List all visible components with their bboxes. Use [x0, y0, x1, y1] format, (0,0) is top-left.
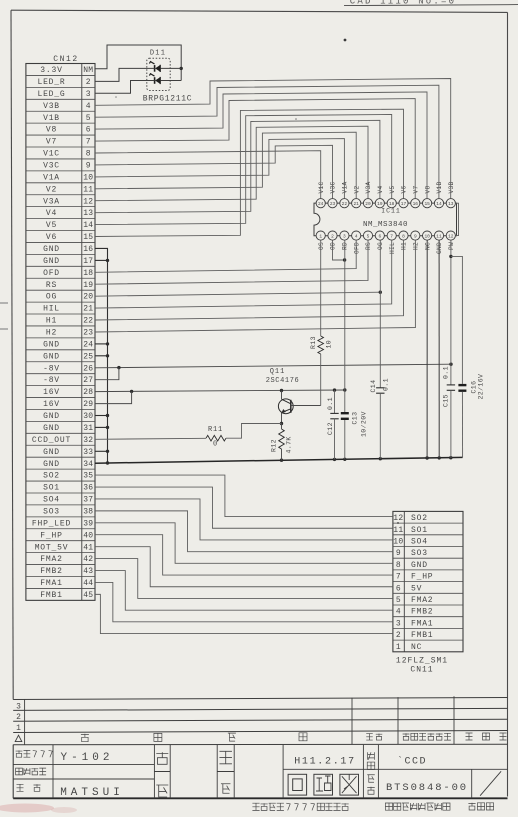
svg-text:33: 33 — [83, 448, 93, 457]
svg-text:V4: V4 — [46, 209, 57, 218]
junction GND pin31 — [106, 426, 109, 429]
svg-text:5: 5 — [396, 596, 401, 605]
wire V1B: CN12 pin5 to IC11 pin14 — [95, 85, 439, 198]
svg-text:V1B: V1B — [436, 181, 443, 193]
svg-text:V7: V7 — [46, 138, 57, 147]
wire C14 to GND rail — [379, 393, 381, 459]
IC11 top pin circles and numbers 24..13 — [316, 199, 325, 208]
wire H1: CN12 pin22 to IC11 pin8 — [95, 240, 404, 320]
svg-text:3.3V: 3.3V — [40, 66, 62, 75]
svg-text:16V: 16V — [43, 388, 60, 397]
svg-text:8: 8 — [86, 150, 91, 159]
svg-text:OD: OD — [330, 242, 337, 250]
junction GND rail / C14 — [379, 457, 382, 460]
svg-text:2: 2 — [331, 233, 334, 239]
svg-text:SO3: SO3 — [43, 507, 60, 516]
svg-text:SO2: SO2 — [411, 514, 428, 523]
svg-text:GND: GND — [43, 448, 60, 457]
wire V3B: CN12 pin4 to IC11 pin13 — [95, 79, 451, 199]
svg-text:Q11: Q11 — [270, 368, 286, 376]
junction GND pin33 — [106, 450, 109, 453]
svg-text:V1C: V1C — [43, 150, 60, 159]
svg-text:9: 9 — [86, 162, 91, 171]
svg-text:15: 15 — [424, 201, 430, 207]
svg-text:30: 30 — [83, 412, 93, 421]
stamp 回路図 (circuit diagram) — [288, 774, 307, 795]
svg-text:10: 10 — [393, 537, 403, 546]
wire OFD: CN12 pin18 to IC11 pin4 — [95, 240, 356, 273]
svg-text:12: 12 — [448, 233, 454, 239]
junction GND rail / R12 — [280, 459, 283, 462]
svg-text:28: 28 — [83, 388, 93, 397]
svg-text:OS: OS — [318, 242, 325, 250]
junction 3.3V at D11 LED1 — [180, 67, 183, 70]
wire OG: IC11 pin6 down to C14 — [379, 240, 381, 388]
svg-text:GND: GND — [43, 340, 60, 349]
svg-text:13: 13 — [83, 209, 93, 218]
wire 16V: CN12 pin29 up to rail — [95, 391, 132, 403]
title block revision table — [13, 698, 507, 700]
svg-text:22: 22 — [342, 201, 348, 207]
svg-text:R12: R12 — [271, 439, 278, 452]
label 図(番) — [367, 775, 375, 783]
svg-text:0.1: 0.1 — [383, 378, 390, 391]
wire RS: CN12 pin19 to IC11 pin5 — [95, 240, 368, 285]
junction GND rail / GND bus — [106, 461, 109, 464]
label 称 — [367, 762, 375, 770]
svg-text:15: 15 — [83, 233, 93, 242]
wire LED_G: CN12 pin3 to D11 LED2 — [95, 81, 155, 94]
svg-text:NC: NC — [424, 242, 431, 250]
svg-text:SO4: SO4 — [43, 496, 60, 505]
svg-text:12: 12 — [393, 514, 403, 523]
svg-text:`CCD: `CCD — [397, 755, 427, 768]
svg-text:V4: V4 — [377, 185, 384, 193]
svg-text:38: 38 — [83, 507, 93, 516]
junction 16V at C13/RD — [343, 388, 346, 391]
svg-text:NM: NM — [83, 66, 93, 75]
svg-text:5: 5 — [86, 114, 91, 123]
wire OS: IC11 pin1 down to R13 — [320, 240, 322, 336]
revision triangle mark — [15, 735, 22, 741]
wire HIL: CN12 pin21 to IC11 pin7 — [95, 240, 392, 309]
op-amp/IC U: IC11 NM_MS3840 body — [314, 203, 457, 236]
wire V2: CN12 pin11 to IC11 pin21 — [95, 132, 356, 198]
junction 16V at C12 — [333, 388, 336, 391]
svg-text:4: 4 — [396, 608, 401, 617]
svg-text:GND: GND — [43, 412, 60, 421]
wire SO1: CN12 pin36 to CN11 pin11 — [95, 487, 393, 528]
wire -8V rail: CN12 pin26 to C15/PW — [95, 364, 451, 368]
wire D11 LED1 to 3.3V vertical — [161, 67, 182, 69]
svg-text:35: 35 — [83, 472, 93, 481]
svg-text:MOT_5V: MOT_5V — [35, 543, 69, 552]
wire GND: CN12 pin24 to bus — [95, 343, 108, 345]
wire V1C: CN12 pin8 to IC11 pin24 — [95, 151, 321, 199]
wire FMA1: CN12 pin44 to CN11 pin3 — [95, 582, 393, 621]
svg-text:V3A: V3A — [43, 197, 60, 206]
header label 容 — [299, 733, 307, 741]
wire CCD_OUT: CN12 pin32 to R11 — [95, 438, 206, 439]
svg-text:NM_MS3840: NM_MS3840 — [363, 221, 408, 229]
division 電子映像事業本部 — [385, 803, 392, 810]
stamp label 承 — [219, 751, 232, 764]
wire GND: CN12 pin25 to bus — [95, 355, 108, 357]
wire IC11 pin10 NC down to GND rail — [426, 240, 428, 458]
svg-text:OG: OG — [46, 293, 57, 302]
svg-text:H2: H2 — [46, 329, 57, 338]
capacitor C12 0.1 — [330, 412, 338, 414]
svg-text:H1: H1 — [401, 242, 408, 250]
wire D11 LED2 to 3.3V vertical — [161, 80, 182, 82]
wire PW: IC11 pin12 down to -8V rail — [450, 240, 452, 364]
junction OG — [379, 291, 382, 294]
svg-text:25: 25 — [83, 352, 93, 361]
wire PW branch to C16 — [451, 256, 463, 384]
wire Q11 emitter down — [281, 413, 283, 424]
svg-text:R13: R13 — [310, 336, 317, 349]
svg-text:39: 39 — [83, 519, 93, 528]
svg-text:C14: C14 — [370, 380, 377, 393]
wire -8V: CN12 pin27 up to rail — [95, 368, 119, 380]
title row line — [13, 764, 154, 766]
svg-text:CCD_OUT: CCD_OUT — [32, 436, 71, 445]
header label 変 — [81, 734, 89, 742]
svg-text:V1A: V1A — [43, 173, 60, 182]
svg-text:3: 3 — [343, 233, 346, 239]
svg-text:42: 42 — [83, 555, 93, 564]
svg-text:SO1: SO1 — [411, 526, 428, 535]
svg-text:12: 12 — [83, 197, 93, 206]
svg-text:11: 11 — [393, 526, 403, 535]
svg-text:V5: V5 — [389, 185, 396, 193]
wire IC11 pin11 GND down to GND rail — [438, 240, 440, 458]
diagonal slash in last cell — [480, 771, 501, 795]
transistor Q11 2SC4176 — [278, 399, 293, 414]
svg-text:23: 23 — [330, 201, 336, 207]
connector CN11 — [393, 511, 463, 651]
junction emitter/R11/R12 node — [280, 422, 283, 425]
svg-text:16: 16 — [413, 201, 419, 207]
svg-text:4: 4 — [86, 102, 91, 111]
svg-text:FMB1: FMB1 — [411, 631, 433, 640]
wire V1A: CN12 pin10 to IC11 pin22 — [95, 139, 344, 199]
svg-text:SO1: SO1 — [43, 484, 60, 493]
wire R13 to Q11 base node — [320, 354, 322, 406]
junction GND pin17 — [106, 259, 109, 262]
svg-text:GND: GND — [43, 460, 60, 469]
svg-text:3: 3 — [86, 90, 91, 99]
svg-text:LED_R: LED_R — [37, 78, 65, 87]
junction GND rail / C12 — [333, 458, 336, 461]
wire V8: CN12 pin6 to IC11 pin15 — [95, 92, 427, 199]
junction PW branch — [449, 255, 452, 258]
svg-text:21: 21 — [83, 305, 93, 314]
svg-text:V1B: V1B — [43, 114, 60, 123]
svg-text:2: 2 — [86, 78, 91, 87]
svg-text:V6: V6 — [46, 233, 57, 242]
svg-text:GND: GND — [43, 257, 60, 266]
svg-text:6: 6 — [378, 233, 381, 239]
svg-text:17: 17 — [401, 201, 407, 207]
svg-text:V5: V5 — [46, 221, 57, 230]
company 富士写真フィルム株式会社 — [252, 803, 259, 810]
svg-text:5V: 5V — [411, 584, 422, 593]
svg-text:V7: V7 — [413, 185, 420, 193]
svg-text:7: 7 — [86, 138, 91, 147]
svg-text:PW: PW — [448, 242, 455, 250]
svg-text:CN11: CN11 — [410, 666, 433, 675]
svg-text:45: 45 — [83, 591, 93, 600]
svg-text:18: 18 — [83, 269, 93, 278]
wire V7: CN12 pin7 to IC11 pin16 — [95, 99, 415, 199]
wire V3A: CN12 pin12 to IC11 pin20 — [95, 126, 368, 201]
wire GND bus: CN12 pin16 down to GND rail — [95, 248, 108, 463]
scan artifact pink smudge — [0, 804, 54, 813]
capacitor C13 10/20V electrolytic — [341, 412, 349, 414]
junction GND rail / C15 — [449, 456, 452, 459]
svg-text:43: 43 — [83, 567, 93, 576]
wire C12 to GND rail — [334, 419, 336, 460]
svg-text:HIL: HIL — [43, 305, 60, 314]
wire SO4: CN12 pin37 to CN11 pin10 — [95, 499, 393, 540]
svg-text:H11.2.17: H11.2.17 — [294, 757, 356, 768]
svg-text:37: 37 — [83, 496, 93, 505]
svg-text:31: 31 — [83, 424, 93, 433]
svg-text:14: 14 — [436, 201, 442, 207]
svg-text:41: 41 — [83, 543, 93, 552]
wire FMB2: CN12 pin43 to CN11 pin4 — [95, 571, 393, 611]
svg-text:MATSUI: MATSUI — [60, 787, 124, 799]
svg-text:0.1: 0.1 — [327, 397, 334, 410]
wire MOT_5V: CN12 pin41 to CN11 pin6 — [95, 547, 393, 587]
svg-text:1: 1 — [319, 233, 322, 239]
svg-text:GND: GND — [411, 561, 428, 570]
svg-text:V3B: V3B — [448, 181, 455, 193]
svg-text:8: 8 — [402, 233, 405, 239]
svg-text:V6: V6 — [401, 185, 408, 193]
svg-text:1: 1 — [16, 724, 21, 733]
svg-text:FMA1: FMA1 — [40, 579, 62, 588]
svg-text:F_HP: F_HP — [40, 531, 62, 540]
wire 16V rail to C12 — [334, 390, 336, 413]
wire C13 to GND rail — [344, 420, 346, 459]
wire V5: CN12 pin14 to IC11 pin18 — [95, 115, 392, 225]
svg-text:FMA2: FMA2 — [411, 596, 433, 605]
svg-text:24: 24 — [83, 340, 93, 349]
svg-text:D11: D11 — [150, 50, 166, 58]
scan specks — [344, 39, 347, 42]
svg-text:C13: C13 — [352, 412, 359, 425]
svg-text:V8: V8 — [424, 185, 431, 193]
svg-text:40: 40 — [83, 531, 93, 540]
svg-text:IC11: IC11 — [381, 208, 401, 215]
svg-text:V1C: V1C — [318, 181, 325, 193]
svg-text:20: 20 — [365, 201, 371, 207]
svg-text:V1A: V1A — [342, 181, 349, 193]
capacitor C15 0.1 — [447, 384, 455, 386]
resistor R13 10 — [318, 336, 324, 354]
wire V6: CN12 pin15 to IC11 pin17 — [95, 109, 404, 236]
svg-text:V2: V2 — [46, 185, 57, 194]
junction OD/RD — [343, 258, 346, 261]
svg-text:7: 7 — [390, 233, 393, 239]
svg-text:HIL: HIL — [389, 242, 396, 254]
svg-text:27: 27 — [83, 376, 93, 385]
svg-text:12FLZ_SM1: 12FLZ_SM1 — [396, 657, 448, 666]
svg-text:10/20V: 10/20V — [361, 411, 368, 437]
svg-text:CN12: CN12 — [53, 55, 79, 64]
wire GND: CN12 pin31 to bus — [95, 426, 108, 428]
wire C16 to GND rail end — [461, 392, 463, 458]
capacitor C16 22/16V electrolytic — [458, 384, 466, 386]
svg-text:16: 16 — [83, 245, 93, 254]
svg-text:C15: C15 — [443, 394, 450, 407]
svg-text:14: 14 — [83, 221, 93, 230]
svg-text:2SC4176: 2SC4176 — [266, 377, 300, 385]
wire OD: IC11 pin2 to RD — [333, 240, 345, 260]
svg-text:GND: GND — [436, 242, 443, 254]
svg-text:H1: H1 — [46, 317, 57, 326]
label 番 — [367, 787, 375, 795]
svg-text:V2: V2 — [353, 185, 360, 193]
svg-text:FHP_LED: FHP_LED — [32, 519, 71, 528]
left margin fold marks — [0, 302, 8, 304]
svg-text:32: 32 — [83, 436, 93, 445]
header label 担当 — [366, 734, 373, 741]
header label 更 — [154, 733, 162, 741]
svg-text:17: 17 — [83, 257, 93, 266]
wire C15 to GND rail — [450, 390, 452, 457]
svg-text:-8V: -8V — [43, 364, 60, 373]
svg-text:LED_G: LED_G — [37, 90, 65, 99]
header label 内 — [228, 733, 236, 741]
svg-text:8: 8 — [396, 561, 401, 570]
wire H2: CN12 pin23 to IC11 pin9 — [95, 240, 415, 332]
svg-text:9: 9 — [414, 233, 417, 239]
svg-text:29: 29 — [83, 400, 93, 409]
svg-text:Y-102: Y-102 — [60, 752, 113, 764]
svg-text:SO4: SO4 — [411, 537, 428, 546]
svg-text:RS: RS — [365, 242, 372, 250]
resistor R12 4.7K — [279, 429, 285, 449]
svg-text:SO2: SO2 — [43, 472, 60, 481]
svg-text:BRPG1211C: BRPG1211C — [143, 95, 193, 104]
svg-text:5: 5 — [367, 233, 370, 239]
svg-text:6: 6 — [86, 126, 91, 135]
wire V4: CN12 pin13 to IC11 pin19 — [95, 120, 380, 212]
svg-text:23: 23 — [83, 329, 93, 338]
svg-text:FMA1: FMA1 — [411, 619, 433, 628]
svg-text:R11: R11 — [208, 426, 223, 434]
svg-text:24: 24 — [318, 201, 324, 207]
svg-text:FMB1: FMB1 — [40, 591, 62, 600]
wire FMA2: CN12 pin42 to CN11 pin5 — [95, 559, 393, 599]
svg-text:11: 11 — [436, 233, 442, 239]
svg-text:13: 13 — [448, 201, 454, 207]
IC11 bottom pin circles and numbers 1..12 — [316, 231, 325, 240]
svg-text:4.7K: 4.7K — [286, 436, 293, 453]
svg-text:11: 11 — [83, 185, 93, 194]
junction -8V at C15 — [449, 363, 452, 366]
LED chip 1 (red) of D11 — [154, 65, 156, 72]
svg-text:FMB2: FMB2 — [411, 608, 433, 617]
junction GND pin30 — [106, 414, 109, 417]
junction -8V pin27 — [117, 366, 120, 369]
wire SO2: CN12 pin35 to CN11 pin12 — [95, 475, 393, 516]
stamp label 検 — [156, 752, 168, 764]
svg-text:36: 36 — [83, 484, 93, 493]
wire FHP_LED: CN12 pin39 to CN11 pin8 — [95, 523, 393, 564]
svg-text:FMA2: FMA2 — [40, 555, 62, 564]
wire GND: CN12 pin33 to bus — [95, 450, 108, 452]
wire FMB1: CN12 pin45 to CN11 pin2 — [95, 594, 393, 633]
svg-text:16V: 16V — [43, 400, 60, 409]
svg-text:V3B: V3B — [43, 102, 60, 111]
svg-text:3: 3 — [396, 619, 401, 628]
svg-text:22/16V: 22/16V — [478, 374, 485, 400]
svg-text:6: 6 — [396, 584, 401, 593]
svg-text:FMB2: FMB2 — [40, 567, 62, 576]
wire GND rail: CN12 pin34 across to C16 — [95, 457, 463, 463]
D11 dashed package outline — [147, 58, 170, 90]
junction 16V pin29 — [130, 390, 133, 393]
svg-text:GND: GND — [43, 352, 60, 361]
svg-text:0: 0 — [213, 441, 218, 449]
header label 年月日 — [466, 733, 473, 740]
wire -8V to C15 — [450, 364, 452, 385]
wire GND: CN12 pin17 to bus — [95, 259, 108, 261]
wire 16V rail: CN12 pin28 to C13 — [95, 390, 345, 392]
page frame border — [11, 10, 508, 12]
wire IC11 pin13 V3B to pin12 PW link — [455, 203, 458, 235]
svg-text:OFD: OFD — [43, 269, 60, 278]
svg-text:44: 44 — [83, 579, 93, 588]
stamp label 認 — [221, 784, 231, 794]
svg-text:9: 9 — [396, 549, 401, 558]
wire GND: CN12 pin30 to bus — [95, 415, 108, 417]
resistor R11 0 — [206, 435, 226, 441]
svg-text:21: 21 — [353, 201, 359, 207]
svg-text:RS: RS — [46, 281, 57, 290]
wire R11 to emitter node — [226, 424, 282, 439]
stamp label 図(check) — [156, 785, 168, 797]
junction GND pin25 — [106, 354, 109, 357]
svg-text:10: 10 — [83, 173, 93, 182]
junction 16V at Q11 collector — [280, 389, 283, 392]
wire LED_R: CN12 pin2 to D11 LED1 — [95, 68, 155, 81]
svg-text:F_HP: F_HP — [411, 573, 433, 582]
wire OG: CN12 pin20 to OG vertical — [95, 292, 380, 296]
wire 16V to C13 — [344, 390, 346, 412]
label 部品番号 — [16, 768, 23, 775]
label 担当 — [17, 784, 24, 791]
wire 3.3V net: CN12 pin1 to D11 common cathode side — [95, 45, 181, 81]
svg-text:7: 7 — [396, 573, 401, 582]
svg-text:0.1: 0.1 — [443, 366, 450, 379]
svg-text:V3C: V3C — [330, 181, 337, 193]
wire R12 to GND rail — [281, 449, 283, 460]
svg-text:1: 1 — [396, 643, 401, 652]
svg-text:2: 2 — [396, 631, 401, 640]
svg-text:V3C: V3C — [43, 162, 60, 171]
svg-text:V8: V8 — [46, 126, 57, 135]
svg-text:V3A: V3A — [365, 181, 372, 193]
svg-text:SO3: SO3 — [411, 549, 428, 558]
svg-text:C12: C12 — [327, 422, 334, 435]
svg-text:H2: H2 — [413, 242, 420, 250]
junction GND rail / C13 — [343, 458, 346, 461]
